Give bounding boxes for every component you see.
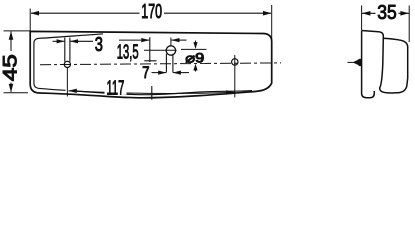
svg-text:7: 7 — [142, 64, 149, 82]
hole 1 horizontal centerline — [144, 49, 177, 51]
dim 170: left extension line — [29, 9, 31, 32]
dim 117: right arrowhead (points right) — [226, 90, 235, 94]
section rib line upper (13.5 reference) — [149, 37, 151, 62]
svg-text:170: 170 — [141, 0, 162, 23]
dim d9: top extension line — [181, 48, 207, 50]
hole 2 vertical centerline — [234, 55, 236, 97]
dim 7: right arrowhead (points left) — [173, 71, 181, 75]
dim 45: bottom extension line — [4, 92, 29, 94]
dim 45: bottom arrowhead — [9, 84, 14, 93]
main horizontal centerline (dash-dot) — [40, 63, 281, 65]
dim 35: left extension line — [361, 6, 363, 31]
dim 170: left arrowhead — [31, 11, 40, 16]
dim 35: dimension line — [362, 12, 409, 14]
lamp front view outer outline — [30, 31, 272, 97]
dim 45: top extension line — [4, 30, 31, 32]
side view: lens body outline — [379, 32, 408, 93]
dim 7: right arrow line — [173, 72, 189, 74]
dim 45: label (rotated) — [0, 51, 21, 83]
dim 35: right arrowhead (points right) — [400, 11, 409, 16]
dim d9: upper arrowhead (points down) — [193, 42, 197, 49]
dim 117: left arrowhead (points left) — [68, 89, 77, 93]
side view: mounting stud thin tip line — [348, 61, 354, 63]
side view: mounting stud body — [359, 59, 362, 66]
dim d9: lower arrow line — [195, 69, 197, 72]
svg-text:35: 35 — [377, 1, 397, 24]
dim 117: label — [105, 77, 127, 100]
dim 45: top arrowhead — [9, 31, 14, 40]
dim 170: right extension line — [271, 5, 273, 40]
svg-text:117: 117 — [107, 77, 125, 100]
keyhole slot left: round hole — [64, 61, 70, 67]
dim 13,5: left arrowhead (points right) — [141, 38, 149, 42]
dim 45: dimension line — [10, 32, 12, 93]
dim 3: right arrow line — [70, 40, 93, 42]
dim 170: label — [140, 0, 165, 23]
dim 3: left arrow line — [53, 40, 65, 42]
dim 170: right arrowhead — [263, 11, 271, 16]
dim 3: right arrowhead (points left) — [70, 39, 78, 43]
keyhole slot left: vertical centerline below hole — [66, 68, 68, 97]
dim 13,5: right arrowhead (points left) — [171, 38, 179, 42]
hole 1 vertical centerline above — [170, 38, 172, 47]
lamp front view inner outline (lens bevel) left+top — [34, 34, 103, 90]
section rib crossbar tick — [144, 60, 156, 62]
dim 7: label — [141, 64, 151, 82]
keyhole slot left: slot edge lines (3mm) — [64, 38, 66, 62]
dim d9: label — [185, 51, 206, 66]
dim d9: upper arrow line — [195, 41, 197, 43]
section rib line lower — [151, 86, 153, 100]
side view: mounting plate outline with foot — [362, 31, 375, 98]
dim 3: left arrowhead (points right) — [57, 39, 65, 43]
dim 13,5: right arrow line — [172, 39, 187, 41]
side view: lamp top connector line — [362, 31, 379, 32]
mounting hole 2 circle — [232, 59, 238, 65]
svg-text:45: 45 — [0, 54, 21, 81]
dim 35: right extension line — [408, 6, 410, 43]
mounting hole 1 (d9) circle — [166, 46, 175, 55]
dim 7: left arrowhead (points right) — [158, 71, 166, 75]
dim 170: dimension line — [31, 12, 271, 14]
dim 117: dimension line — [69, 91, 235, 94]
hole 1 slot edges (7mm slot downward) — [165, 54, 167, 73]
lamp front view inner outline bottom right part — [75, 91, 252, 95]
side view: mounting stud cone — [353, 59, 359, 65]
dim 7: left arrow line — [152, 72, 167, 74]
svg-text:3: 3 — [95, 33, 103, 56]
dim d9: lower arrowhead (points up) — [193, 64, 197, 71]
dim 35: label — [376, 1, 399, 24]
svg-text:13,5: 13,5 — [117, 40, 139, 63]
svg-text:⌀9: ⌀9 — [185, 51, 204, 66]
dim 13,5: left arrow line — [119, 39, 149, 41]
dim 35: left arrowhead (points left) — [362, 11, 371, 16]
